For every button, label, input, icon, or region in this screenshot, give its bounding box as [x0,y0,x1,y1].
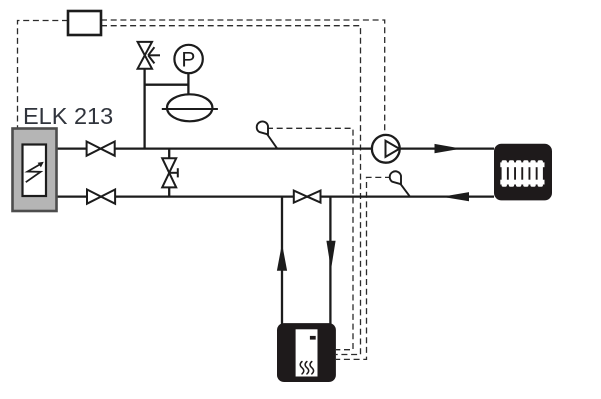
wire: gauge and expansion vessel stem [187,72,189,97]
flow arrow (supply, right) [435,144,462,153]
sensor BT71 (return temperature) [390,171,410,196]
wire: return pipe (bottom) [57,195,494,197]
flow arrow (return, left) [442,192,469,201]
svg-text:P: P [181,48,195,71]
valve QM4 (shut-off on return, between risers) [294,191,321,203]
balance valve QM3 (with T handle) [162,158,178,187]
wire: connector to gauge/vessel [144,84,189,86]
safety valve FL2 [138,42,160,69]
wire: safety valve branch [143,69,145,149]
wire: dashed control cable from junction box to ELK 213 (left) [18,21,69,128]
wire: boiler supply riser (left) [281,197,283,324]
sensor BT25 (supply temperature) [257,122,277,149]
wire: dashed control cable from junction box to heat pump [101,26,361,355]
heater ELK 213 (electric boiler, left) [13,129,57,212]
wire: dashed control cable from junction box to circulation pump [101,20,385,134]
junction box (top) [68,11,101,35]
pressure gauge BP5 [174,45,202,73]
valve QM2 (shut-off, return) [87,190,115,204]
pump GP10 (circulation) [372,135,400,163]
expansion vessel CM1 [162,94,218,121]
wire: dashed sensor cable from supply sensor to heat pump [267,128,353,349]
radiator (heating system) [494,144,552,201]
heat pump (bottom unit) [277,323,336,382]
wire: boiler return drop (right) [329,197,331,324]
flow arrow (drop, down) [326,241,335,270]
svg-text:ELK 213: ELK 213 [23,103,113,129]
valve QM1 (shut-off, supply) [87,142,115,156]
wire: supply pipe (top) [57,147,494,149]
flow arrow (riser, up) [277,244,287,271]
wire: dashed sensor cable from return sensor to heat pump [336,177,391,359]
wire: balance valve branch [168,149,170,197]
